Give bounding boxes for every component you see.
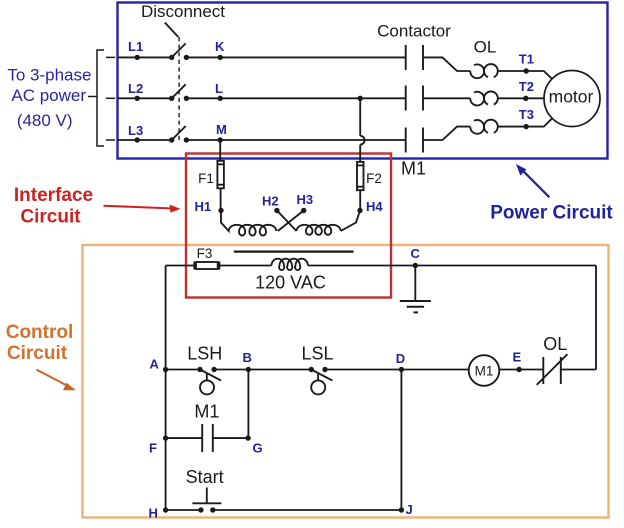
svg-text:H: H [149,506,158,521]
svg-text:OL: OL [543,334,567,354]
svg-text:E: E [513,350,522,365]
svg-text:F: F [149,440,157,455]
svg-text:G: G [253,440,263,455]
svg-text:To 3-phase: To 3-phase [7,66,91,85]
svg-text:motor: motor [549,87,594,107]
svg-text:LSL: LSL [301,344,333,364]
svg-text:F3: F3 [197,246,213,261]
svg-text:L3: L3 [128,123,143,138]
svg-text:Start: Start [186,467,224,487]
svg-text:L1: L1 [128,39,143,54]
svg-text:T1: T1 [519,52,534,67]
svg-text:A: A [150,357,160,372]
svg-text:F1: F1 [198,171,214,186]
svg-text:D: D [396,351,405,366]
svg-text:M: M [216,122,227,137]
svg-text:(480 V): (480 V) [17,111,73,130]
svg-text:L: L [215,81,223,96]
svg-text:H2: H2 [262,194,279,209]
svg-text:Circuit: Circuit [20,206,81,227]
svg-text:OL: OL [474,38,497,57]
svg-text:120 VAC: 120 VAC [255,273,326,293]
svg-text:M1: M1 [475,364,494,379]
svg-text:Contactor: Contactor [377,22,451,41]
svg-text:Control: Control [6,322,74,343]
svg-text:Power Circuit: Power Circuit [490,202,613,223]
svg-text:C: C [411,246,421,261]
svg-text:T2: T2 [519,79,534,94]
svg-text:H3: H3 [297,192,314,207]
svg-text:J: J [406,502,413,517]
svg-text:Disconnect: Disconnect [141,2,225,21]
svg-text:M1: M1 [194,401,219,421]
svg-text:LSH: LSH [187,344,222,364]
svg-text:B: B [243,350,252,365]
svg-text:Interface: Interface [14,185,93,206]
svg-text:H1: H1 [195,199,212,214]
svg-text:AC power: AC power [11,86,86,105]
svg-text:T3: T3 [519,107,534,122]
svg-text:M1: M1 [401,158,426,178]
svg-text:K: K [215,39,225,54]
svg-text:F2: F2 [366,171,382,186]
svg-text:Circuit: Circuit [7,343,68,364]
svg-text:H4: H4 [366,199,383,214]
svg-text:L2: L2 [128,81,143,96]
